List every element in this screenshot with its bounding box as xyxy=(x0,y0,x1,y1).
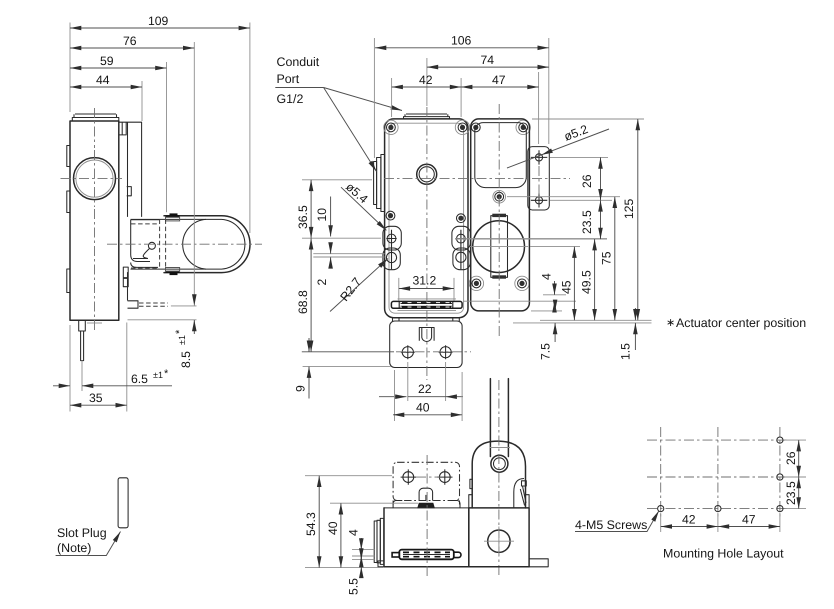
label 4-M5 screws xyxy=(575,511,659,532)
layout right ext lines xyxy=(785,440,806,509)
ext line x70 bottom / x126.8 xyxy=(70,323,127,412)
dim 7.5 xyxy=(539,303,556,361)
leader R2.7 xyxy=(330,259,388,312)
dim 26 xyxy=(580,157,601,200)
svg-text:47: 47 xyxy=(492,73,506,87)
svg-text:75: 75 xyxy=(600,251,614,265)
svg-text:23.5: 23.5 xyxy=(580,210,594,234)
svg-text:±1: ±1 xyxy=(177,335,187,345)
ext line left x70 xyxy=(69,23,71,113)
bottom: lever head dome xyxy=(472,441,525,508)
svg-text:42: 42 xyxy=(419,73,433,87)
side view: fork bottom rail xyxy=(131,263,158,268)
dim 36.5 xyxy=(296,180,311,238)
dim 54.3 xyxy=(304,476,319,568)
dim 40 vertical xyxy=(326,503,341,567)
front: bracket holes centerline xyxy=(396,351,471,353)
ext line y238.2 xyxy=(302,237,607,239)
svg-text:36.5: 36.5 xyxy=(296,205,310,229)
front: left mounting tab lobes xyxy=(383,226,401,250)
svg-text:4: 4 xyxy=(347,529,361,536)
side view: lower latch blocks xyxy=(123,267,128,287)
front: left tab holes xyxy=(387,234,396,243)
conduit port label xyxy=(275,55,402,172)
front: corner screws xyxy=(386,123,527,288)
bottom: lever pivot circle xyxy=(491,455,508,472)
side view: arm clamp tabs xyxy=(166,213,180,275)
bottom: dome base steps xyxy=(469,495,529,508)
side view: inner plate line xyxy=(127,122,129,301)
front: left conduit flange xyxy=(374,155,385,212)
svg-text:76: 76 xyxy=(123,34,137,48)
layout grid centerlines xyxy=(647,427,788,520)
bottom: body centerline xyxy=(426,455,428,577)
bottom: left conduit flange side xyxy=(374,518,384,564)
leader diameter 5.2 xyxy=(507,122,609,168)
front: corner screw ears xyxy=(384,120,531,290)
front: centerline horizontal head xyxy=(384,177,570,179)
svg-text:35: 35 xyxy=(89,391,103,405)
ext lines top xyxy=(374,38,548,158)
svg-text:∗: ∗ xyxy=(666,317,675,329)
svg-text:G1/2: G1/2 xyxy=(277,92,304,106)
front: centerline vertical left body xyxy=(426,107,428,380)
dim 9 xyxy=(294,338,395,399)
side view: head back block xyxy=(119,122,142,217)
side view: fork visible edge xyxy=(131,220,159,262)
side view: actuator arm outer xyxy=(131,216,251,273)
layout holes xyxy=(658,437,783,512)
ext line y305.9 pin xyxy=(171,305,197,307)
side view: head centerlines xyxy=(61,150,123,207)
leader diameter 5.4 xyxy=(341,180,386,231)
ext lines bottom view xyxy=(305,475,392,477)
dim 6.5 xyxy=(53,368,172,386)
svg-text:5.5: 5.5 xyxy=(347,578,361,595)
front: right body window xyxy=(475,123,527,188)
dim 4 bottom view xyxy=(347,529,362,563)
front: right body outer xyxy=(471,119,530,311)
side view: arm centerline xyxy=(107,243,262,245)
svg-text:2: 2 xyxy=(315,279,329,286)
dim 23.5 layout xyxy=(784,477,799,509)
svg-text:1.5: 1.5 xyxy=(619,343,633,360)
ext line x166.5 (59) xyxy=(166,62,168,212)
dim 47 layout xyxy=(718,513,780,527)
front: bottom slot with hatch xyxy=(391,299,462,311)
ext line y319.8 xyxy=(128,319,197,321)
svg-text:40: 40 xyxy=(326,521,340,535)
svg-text:59: 59 xyxy=(100,54,114,68)
svg-text:23.5: 23.5 xyxy=(784,481,798,505)
svg-text:26: 26 xyxy=(784,451,798,465)
svg-text:74: 74 xyxy=(481,53,495,67)
bottom: left small step xyxy=(378,561,384,567)
front: left body outer xyxy=(385,119,468,318)
side view: bottom plunger pin xyxy=(79,320,86,360)
dim 106 xyxy=(375,34,549,48)
svg-text:49.5: 49.5 xyxy=(580,270,594,294)
front: left body small circle xyxy=(417,164,437,184)
front: right bracket plate xyxy=(528,147,550,210)
svg-text:40: 40 xyxy=(416,401,430,415)
svg-text:10: 10 xyxy=(315,208,329,222)
dim 8.5 lower arrow and text xyxy=(174,320,194,368)
svg-text:22: 22 xyxy=(418,382,432,396)
dim 4 right xyxy=(540,273,555,309)
front: conduit cap top xyxy=(404,114,450,119)
dim 1.5 xyxy=(619,308,636,360)
front: head big circle xyxy=(473,221,525,273)
svg-text:4-M5 Screws: 4-M5 Screws xyxy=(575,518,647,532)
svg-text:26: 26 xyxy=(580,174,594,188)
front: big circle cross xyxy=(470,246,528,248)
dim 5.5 xyxy=(347,552,362,595)
slot plug leader xyxy=(56,532,121,556)
actuator note xyxy=(666,316,806,330)
dim 40 horizontal xyxy=(393,370,462,421)
bottom: slot with hatch xyxy=(392,550,461,560)
dim 44 xyxy=(70,73,142,87)
dim 31.2 xyxy=(399,274,454,301)
side view: conduit cap xyxy=(72,114,119,121)
svg-text:68.8: 68.8 xyxy=(296,290,310,314)
svg-text:6.5: 6.5 xyxy=(131,372,148,386)
ext line y179.5 xyxy=(302,179,372,181)
bottom: latch detail right xyxy=(470,479,526,508)
dim 22 xyxy=(379,362,463,401)
ext lines right xyxy=(532,118,644,120)
front: actuator shaft xyxy=(491,214,508,279)
dim 42 xyxy=(392,73,462,87)
dim 45 xyxy=(560,247,575,321)
bottom: lever centerline xyxy=(498,380,500,577)
svg-text:9: 9 xyxy=(294,385,308,392)
bottom: right body circle xyxy=(484,527,514,557)
dim 75 xyxy=(600,197,615,321)
front: left body inner xyxy=(389,123,464,313)
dim 42 layout xyxy=(661,513,718,527)
svg-text:125: 125 xyxy=(622,198,636,219)
side view: side plunger pin xyxy=(128,301,169,308)
front: window screw xyxy=(493,190,506,203)
svg-text:47: 47 xyxy=(742,513,756,527)
svg-text:42: 42 xyxy=(682,513,696,527)
svg-text:4: 4 xyxy=(540,273,554,280)
svg-text:109: 109 xyxy=(148,14,169,28)
svg-text:Slot Plug: Slot Plug xyxy=(57,526,107,540)
svg-text:(Note): (Note) xyxy=(57,541,91,555)
svg-text:106: 106 xyxy=(451,34,472,48)
side view: left edge tabs xyxy=(67,146,70,293)
svg-text:8.5: 8.5 xyxy=(179,351,193,368)
bottom: plug on top xyxy=(417,488,435,508)
ext line x248.7 (109) xyxy=(249,23,251,234)
bottom: right body block xyxy=(469,508,529,567)
dim 68.8 xyxy=(296,238,311,352)
svg-text:*: * xyxy=(174,329,186,334)
dim 23.5 xyxy=(580,200,601,239)
svg-text:*: * xyxy=(164,368,169,380)
svg-text:44: 44 xyxy=(96,73,110,87)
layout bottom ext lines xyxy=(661,513,780,532)
side view: switch body outline xyxy=(70,121,119,320)
dim 26 layout xyxy=(784,440,799,477)
dim 10 xyxy=(315,197,331,237)
dim 109 xyxy=(70,14,250,28)
svg-text:Port: Port xyxy=(277,72,300,86)
pin ext line xyxy=(81,361,83,391)
slot plug body xyxy=(118,478,128,528)
bottom: right foot xyxy=(529,559,548,567)
bottom: main body xyxy=(384,508,469,567)
side view: internal lever hook xyxy=(143,249,149,259)
side view: latch bump on front face xyxy=(127,187,132,196)
dim 49.5 xyxy=(580,239,595,320)
dim 74 xyxy=(427,53,549,67)
bottom: lever arm xyxy=(489,379,510,457)
side view: small cross below body xyxy=(87,322,102,324)
svg-text:7.5: 7.5 xyxy=(539,343,553,360)
svg-text:Mounting Hole Layout: Mounting Hole Layout xyxy=(663,547,784,561)
ext line x194.3 (76) and 8.5 arrow xyxy=(193,42,195,306)
svg-text:31.2: 31.2 xyxy=(413,274,437,288)
svg-text:54.3: 54.3 xyxy=(304,512,318,536)
svg-text:45: 45 xyxy=(560,280,574,294)
svg-text:Actuator center position: Actuator center position xyxy=(676,316,806,330)
dim 2 lines xyxy=(313,244,384,286)
side view: fork pivot xyxy=(148,242,155,249)
side view: body centerline vertical xyxy=(94,108,96,331)
front: joint tab lobes xyxy=(452,226,470,250)
side view: head circle xyxy=(74,158,116,200)
ext line x142 (44) xyxy=(141,81,143,121)
side view: fork hidden edges xyxy=(131,220,166,269)
bottom: bracket dashed plate xyxy=(393,462,460,508)
front: joint tab holes xyxy=(457,234,466,243)
dim 47 xyxy=(461,73,538,87)
front: centerline vertical right body xyxy=(498,104,500,336)
front: bottom bracket xyxy=(390,318,462,368)
dim 125 xyxy=(622,119,638,320)
svg-text:±1: ±1 xyxy=(153,370,163,380)
dim 35 xyxy=(70,391,127,405)
dim 59 xyxy=(70,54,167,68)
dim 76 xyxy=(70,34,194,48)
svg-text:Conduit: Conduit xyxy=(277,55,320,69)
